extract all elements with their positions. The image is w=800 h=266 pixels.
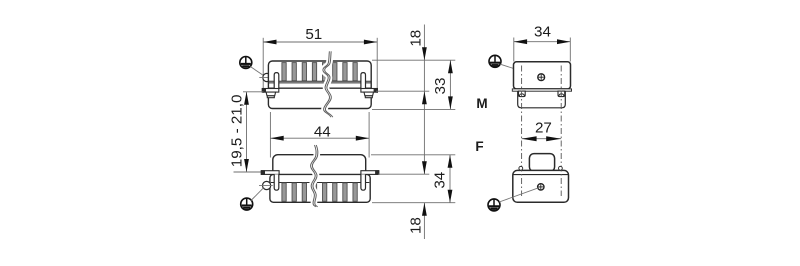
contact stripes (top insert) bbox=[282, 63, 357, 81]
dimension text 19,5 - 21,0 bbox=[228, 95, 245, 168]
dimension 33 line with arrows bbox=[448, 60, 453, 109]
right bracket (bottom connector) bbox=[361, 171, 379, 191]
svg-text:M: M bbox=[476, 96, 487, 111]
M body bbox=[514, 62, 571, 89]
label F bbox=[475, 139, 483, 154]
svg-text:34: 34 bbox=[534, 23, 551, 40]
earth symbol F bbox=[488, 199, 500, 211]
M screw bbox=[538, 74, 545, 81]
dimension 51 extension line left bbox=[262, 38, 264, 93]
earth symbol M bbox=[489, 55, 501, 67]
break line wavy pair (bottom connector) bbox=[311, 145, 318, 207]
left locking bracket (top connector) bbox=[262, 73, 279, 98]
contact stripes (bottom insert) bbox=[282, 183, 357, 201]
dimension text 51 bbox=[305, 26, 322, 43]
ear lug on left edge (bottom connector) bbox=[259, 181, 273, 189]
svg-text:27: 27 bbox=[535, 119, 552, 136]
centerlines dash-dot (27 width) bbox=[522, 66, 562, 197]
dimension 34 extension lines (M view) bbox=[514, 38, 571, 62]
dimension 51 extension line right bbox=[376, 38, 378, 93]
dimension 34 line with arrows (left drawing) bbox=[448, 155, 453, 203]
F corner hole left bbox=[519, 166, 523, 170]
dimension text 18 (bottom) bbox=[408, 217, 425, 234]
extension line female bottom (y=202.7) bbox=[372, 202, 455, 204]
break line wavy pair (top connector) bbox=[323, 51, 333, 117]
svg-text:18: 18 bbox=[408, 30, 425, 47]
body (bottom connector) bbox=[270, 174, 370, 202]
break line halo (bottom connector) bbox=[311, 145, 316, 207]
leader line earth to ear (bottom) bbox=[251, 187, 264, 200]
dimension text 34 (left drawing) bbox=[432, 172, 449, 189]
stripes top line (bottom) bbox=[271, 182, 370, 184]
connector housing outline (top) bbox=[268, 61, 371, 109]
leader line earth to ear (top) bbox=[250, 67, 264, 77]
right locking bracket (top connector) bbox=[361, 73, 378, 98]
hood (bottom connector) bbox=[273, 155, 366, 176]
dimension 44 extension lines bbox=[270, 112, 369, 158]
dimension text 18 (top) bbox=[408, 30, 425, 47]
left bracket (bottom connector) bbox=[261, 171, 279, 191]
svg-text:18: 18 bbox=[408, 217, 425, 234]
F screw bbox=[538, 184, 544, 190]
svg-text:34: 34 bbox=[432, 172, 449, 189]
F body bbox=[513, 170, 569, 202]
F lid line bbox=[513, 174, 568, 176]
break line halo (top connector) bbox=[324, 51, 332, 117]
insert bottom line (top) bbox=[269, 81, 371, 83]
dimension 18 (top) line with arrow bbox=[422, 25, 427, 175]
F hood bbox=[529, 154, 554, 172]
dimension 44 line with arrows bbox=[270, 136, 369, 141]
M right foot bbox=[558, 91, 565, 97]
dimension 34 line with arrows (M view) bbox=[514, 39, 571, 44]
svg-text:F: F bbox=[475, 139, 483, 154]
extension line male bottom (y=109.4) bbox=[372, 108, 455, 110]
dimension 19,5-21,0 line with arrows bbox=[234, 92, 273, 172]
svg-text:51: 51 bbox=[305, 26, 322, 43]
earth symbol bottom-left bbox=[241, 198, 253, 210]
M narrow section bbox=[518, 91, 566, 108]
dimension text 33 bbox=[432, 78, 449, 95]
extension line male flange (y=91.2) bbox=[376, 90, 429, 92]
dimension text 34 (M view) bbox=[534, 23, 551, 40]
M base plate bbox=[512, 89, 571, 91]
flange line (top) bbox=[269, 87, 371, 89]
ear lug on left edge (top connector) bbox=[259, 73, 273, 81]
dimension 27 line with arrows bbox=[522, 136, 562, 141]
dimension 18 (bottom) line with arrow bbox=[422, 203, 427, 239]
dimension text 27 bbox=[535, 119, 552, 136]
extension line top of male (y=60.2) bbox=[372, 59, 455, 61]
M left foot bbox=[519, 91, 526, 97]
dimension text 44 bbox=[314, 123, 331, 140]
extension line female flange (y=174.2) bbox=[378, 173, 429, 175]
F corner hole right bbox=[559, 166, 563, 170]
extension line hood top female (y=154.8) bbox=[371, 154, 455, 156]
leader line earth to screw (F) bbox=[499, 188, 539, 202]
svg-text:44: 44 bbox=[314, 123, 331, 140]
svg-text:19,5 - 21,0: 19,5 - 21,0 bbox=[228, 95, 245, 168]
svg-text:33: 33 bbox=[432, 78, 449, 95]
dimension 51 line with arrows bbox=[263, 40, 377, 45]
earth symbol top-left bbox=[240, 57, 252, 69]
label M bbox=[476, 96, 487, 111]
leader line earth to screw (M) bbox=[500, 64, 540, 77]
